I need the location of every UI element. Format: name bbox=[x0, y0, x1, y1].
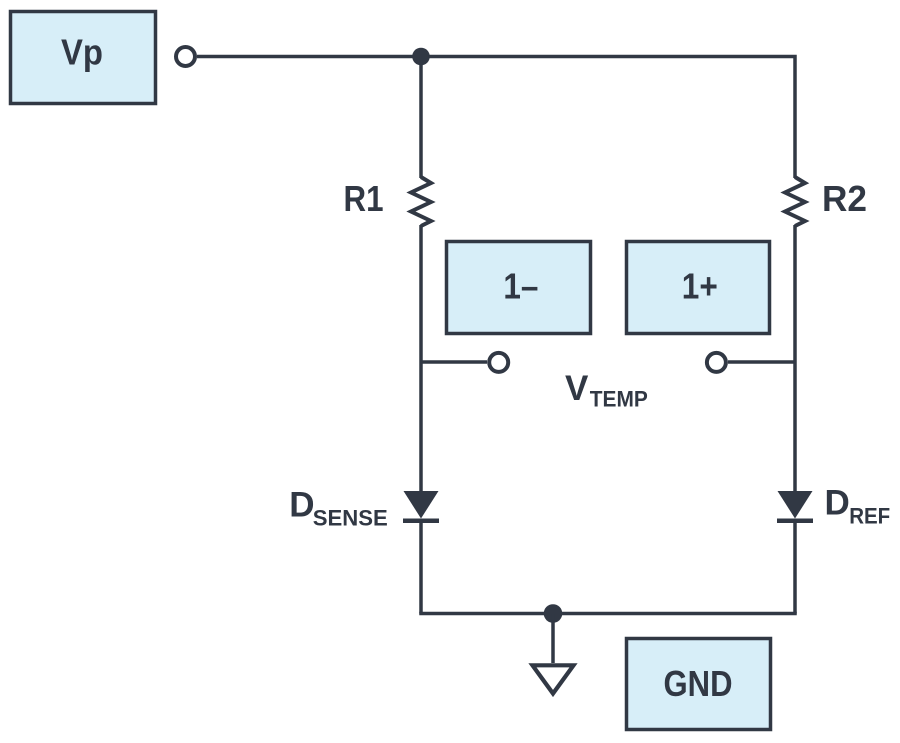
wire: terminal to node A bbox=[197, 55, 421, 59]
svg-text:TEMP: TEMP bbox=[590, 387, 648, 412]
ground symbol (open triangle) bbox=[533, 665, 574, 693]
block 1- bbox=[447, 242, 591, 334]
wire: left vertical to 1- terminal bbox=[421, 360, 487, 364]
svg-text:Vp: Vp bbox=[61, 32, 103, 73]
label VTEMP bbox=[565, 369, 648, 412]
block GND bbox=[627, 639, 771, 730]
wire: R2 bottom to D_REF bbox=[793, 225, 797, 492]
resistor R1 bbox=[411, 177, 431, 226]
label D_SENSE bbox=[289, 486, 388, 531]
svg-text:V: V bbox=[565, 369, 589, 408]
wire: node A right and down to R2 top bbox=[421, 57, 795, 179]
wire: R1 bottom to D_SENSE bbox=[419, 225, 423, 492]
svg-text:D: D bbox=[825, 483, 850, 522]
block 1+ bbox=[627, 242, 770, 334]
terminal (open circle) 1- bbox=[489, 353, 508, 372]
wire: D_REF to bottom rail bbox=[793, 519, 797, 614]
ground node junction dot bbox=[544, 604, 563, 623]
terminal (open circle) at Vp output bbox=[176, 47, 195, 66]
svg-text:D: D bbox=[289, 486, 314, 525]
terminal (open circle) 1+ bbox=[707, 353, 726, 372]
svg-text:R2: R2 bbox=[822, 178, 867, 219]
wire: node A to R1 top bbox=[419, 57, 423, 179]
wire: D_SENSE to bottom rail bbox=[419, 519, 423, 614]
node A junction dot bbox=[412, 48, 430, 66]
wire: 1+ terminal to right vertical bbox=[728, 360, 795, 364]
label D_REF bbox=[825, 483, 891, 528]
svg-text:REF: REF bbox=[849, 504, 890, 529]
svg-text:GND: GND bbox=[664, 663, 733, 704]
resistor R2 bbox=[785, 177, 805, 226]
svg-text:R1: R1 bbox=[344, 178, 384, 219]
diode D_SENSE bbox=[403, 491, 439, 521]
svg-text:1+: 1+ bbox=[682, 266, 718, 307]
wire: junction to ground symbol bbox=[551, 614, 555, 664]
diode D_REF bbox=[777, 491, 813, 521]
svg-text:1–: 1– bbox=[503, 266, 538, 307]
source block Vp bbox=[11, 12, 156, 104]
svg-text:SENSE: SENSE bbox=[313, 506, 388, 531]
wire: bottom rail bbox=[419, 612, 797, 616]
